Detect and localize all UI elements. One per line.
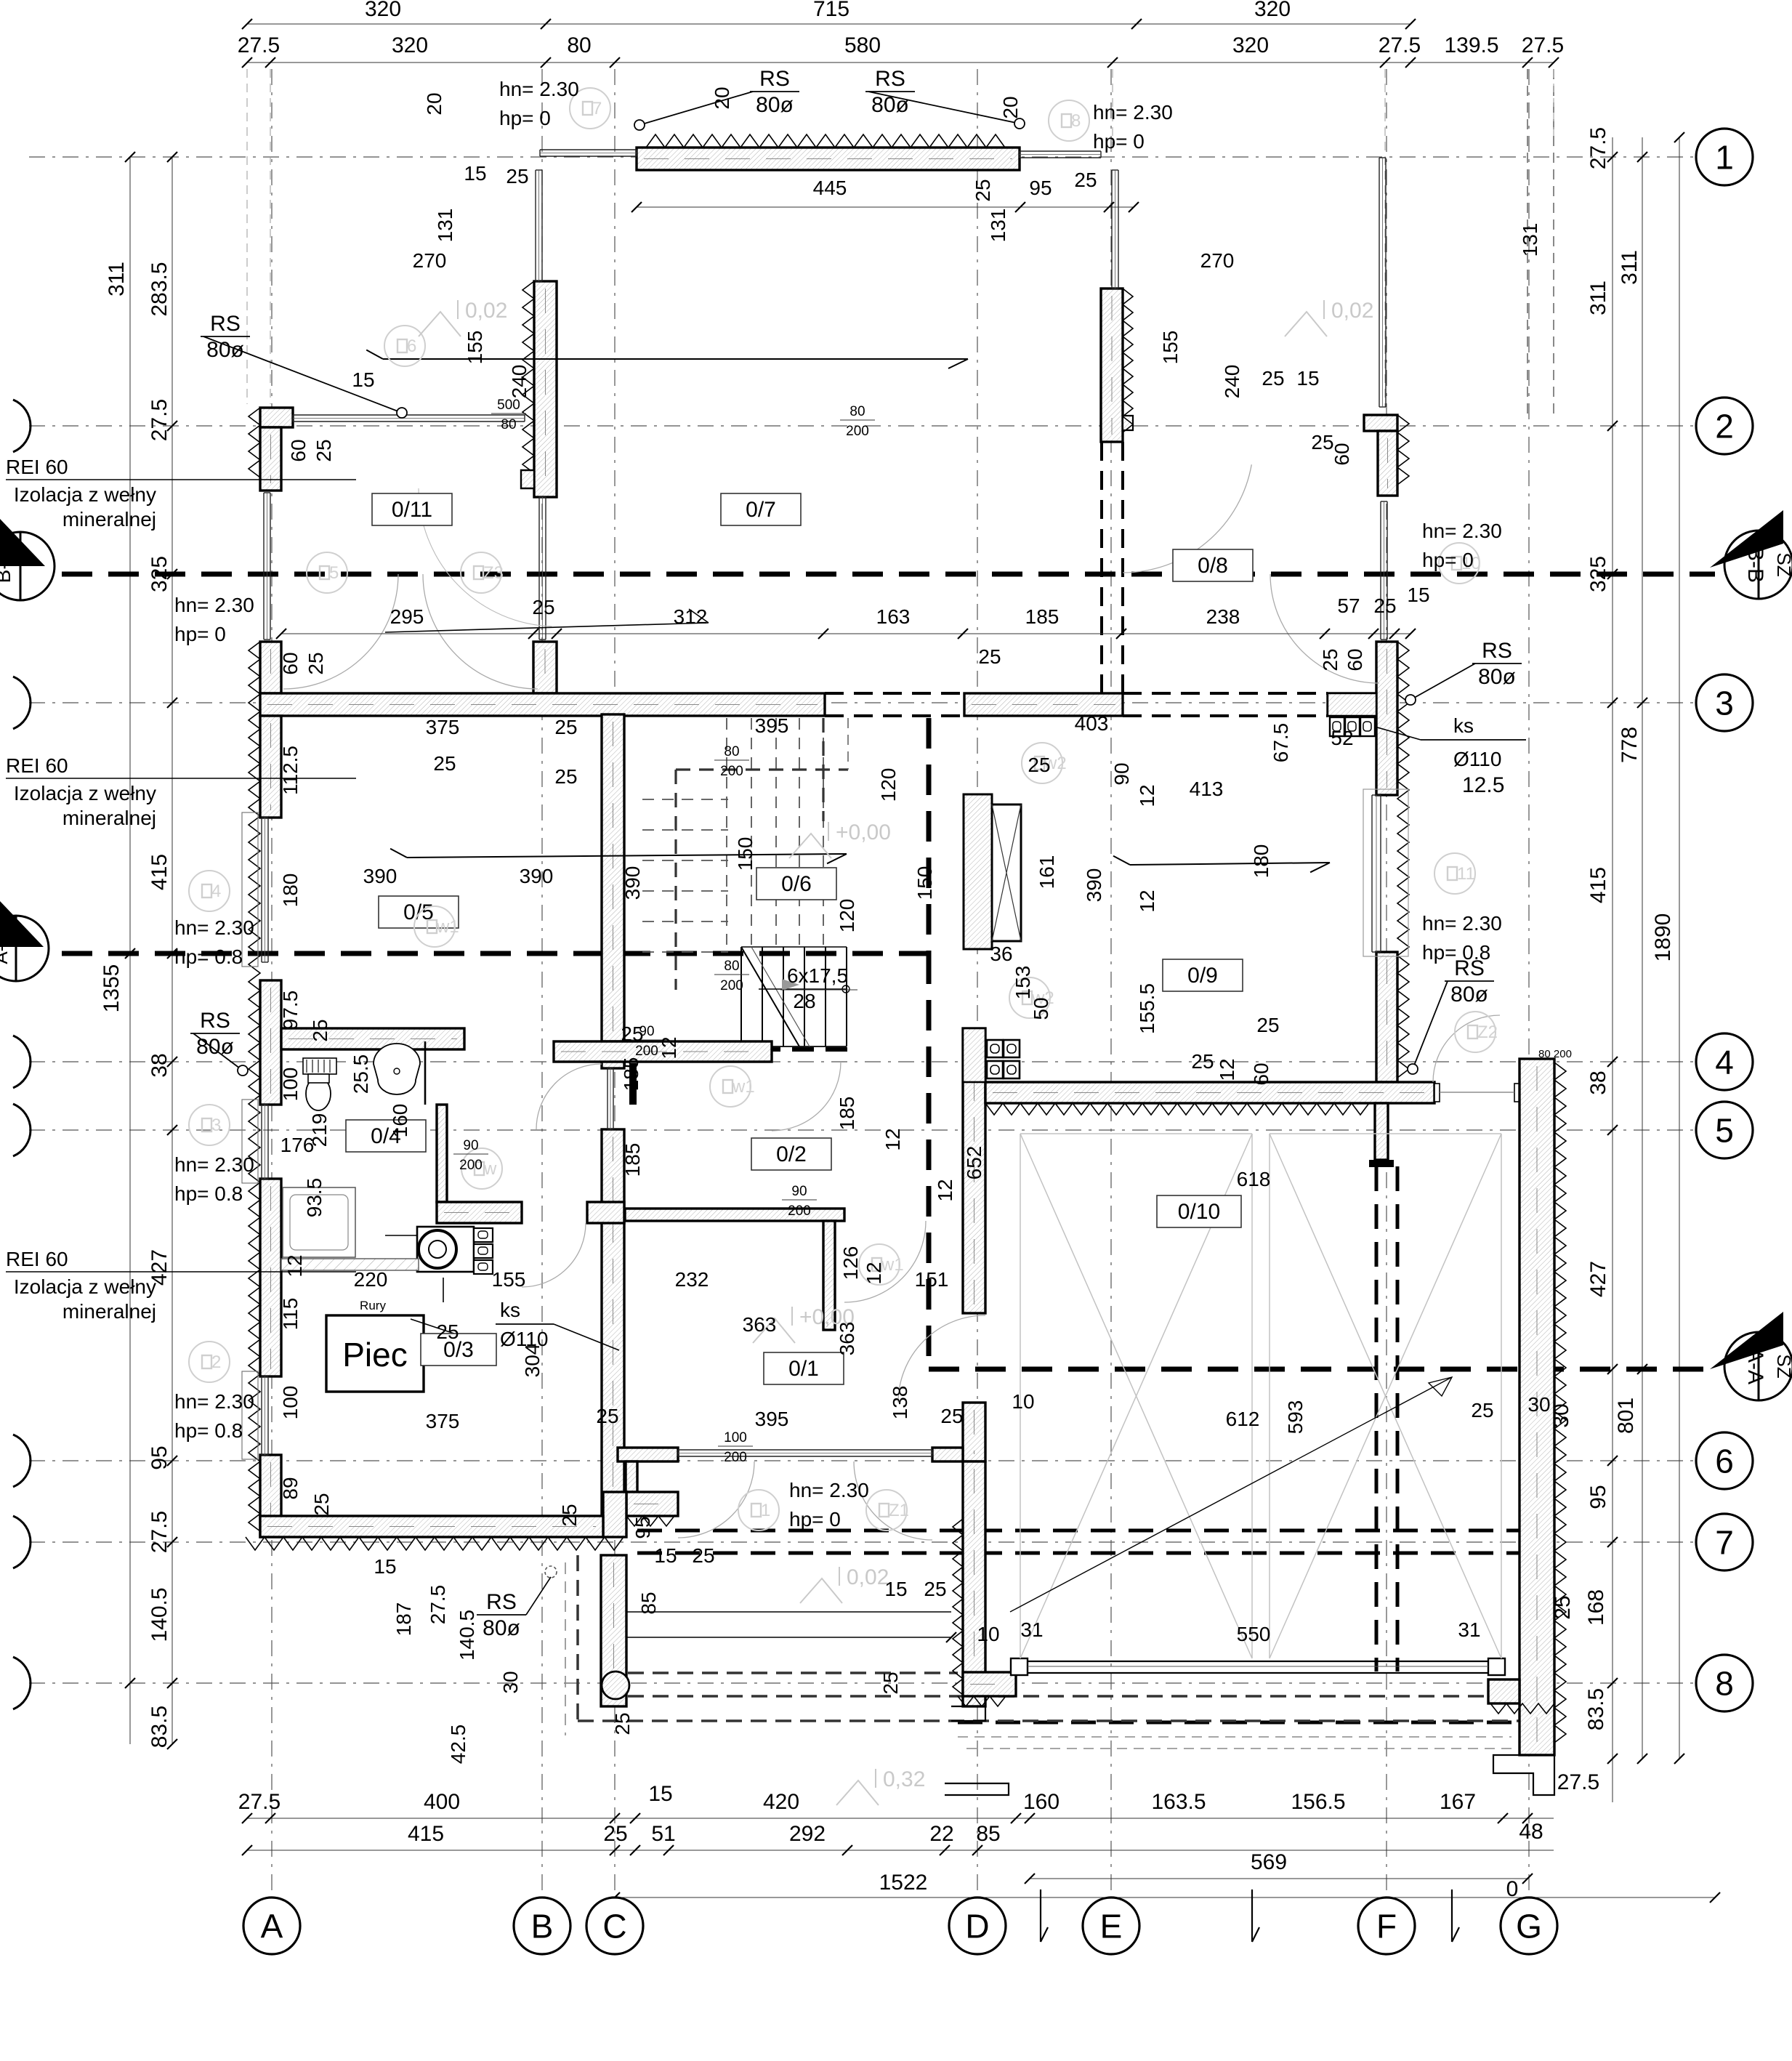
svg-text:15: 15	[884, 1578, 907, 1600]
svg-text:2: 2	[211, 1352, 221, 1372]
svg-text:311: 311	[1586, 281, 1610, 315]
svg-text:95: 95	[1029, 177, 1052, 199]
svg-text:25.5: 25.5	[350, 1054, 372, 1094]
svg-text:hn= 2.30: hn= 2.30	[174, 1153, 254, 1176]
svg-text:SZ: SZ	[1773, 1354, 1792, 1378]
svg-text:25: 25	[1471, 1399, 1493, 1421]
svg-text:150: 150	[734, 837, 756, 871]
svg-text:REI 60: REI 60	[6, 1248, 68, 1270]
svg-text:0/9: 0/9	[1187, 964, 1218, 988]
svg-text:mineralnej: mineralnej	[62, 1300, 156, 1323]
svg-text:403: 403	[1075, 712, 1109, 735]
svg-text:F: F	[1376, 1908, 1397, 1945]
svg-text:60: 60	[279, 652, 302, 674]
svg-text:1890: 1890	[1651, 913, 1675, 962]
svg-text:12: 12	[283, 1254, 306, 1277]
svg-text:445: 445	[813, 177, 847, 199]
svg-text:93.5: 93.5	[303, 1178, 326, 1218]
svg-text:Izolacja z wełny: Izolacja z wełny	[14, 483, 156, 506]
svg-text:618: 618	[1237, 1168, 1271, 1190]
svg-text:185: 185	[620, 1057, 642, 1092]
svg-text:320: 320	[1232, 33, 1269, 57]
svg-text:83.5: 83.5	[1584, 1688, 1608, 1730]
svg-text:SZ: SZ	[1773, 552, 1792, 576]
svg-text:25: 25	[554, 765, 577, 788]
svg-text:25: 25	[554, 716, 577, 738]
svg-text:25: 25	[611, 1712, 634, 1735]
svg-text:25: 25	[309, 1019, 331, 1041]
svg-text:0/11: 0/11	[392, 498, 432, 522]
svg-text:25: 25	[1191, 1050, 1214, 1073]
svg-text:25: 25	[879, 1671, 902, 1694]
svg-text:185: 185	[621, 1143, 644, 1177]
svg-text:RS: RS	[210, 312, 241, 336]
svg-text:80: 80	[724, 744, 739, 759]
svg-text:Izolacja z wełny: Izolacja z wełny	[14, 782, 156, 804]
svg-text:1: 1	[1715, 139, 1734, 177]
svg-text:85: 85	[637, 1592, 660, 1614]
svg-text:8: 8	[1715, 1665, 1734, 1703]
svg-text:200: 200	[635, 1044, 658, 1059]
svg-text:161: 161	[1036, 855, 1058, 890]
svg-text:0/10: 0/10	[1178, 1200, 1220, 1224]
svg-text:115: 115	[279, 1298, 302, 1331]
svg-text:80: 80	[501, 417, 516, 432]
svg-text:25: 25	[558, 1504, 581, 1526]
svg-text:28: 28	[793, 990, 815, 1012]
svg-text:15: 15	[464, 162, 486, 185]
svg-text:140.5: 140.5	[456, 1610, 478, 1661]
svg-text:801: 801	[1614, 1397, 1638, 1434]
svg-text:7: 7	[1715, 1524, 1734, 1562]
svg-text:REI 60: REI 60	[6, 456, 68, 478]
svg-text:hp= 0: hp= 0	[174, 623, 226, 645]
svg-text:27.5: 27.5	[1379, 33, 1421, 57]
svg-text:67.5: 67.5	[1270, 723, 1292, 763]
svg-text:hp= 0: hp= 0	[1422, 549, 1474, 571]
svg-text:6x17,5: 6x17,5	[787, 964, 848, 987]
svg-text:w: w	[483, 1159, 497, 1179]
svg-text:15: 15	[1296, 367, 1319, 390]
svg-text:100: 100	[724, 1430, 747, 1445]
svg-text:25: 25	[924, 1578, 946, 1600]
svg-text:200: 200	[720, 764, 743, 779]
svg-text:B-B: B-B	[1743, 546, 1767, 583]
svg-text:10: 10	[977, 1623, 999, 1645]
svg-text:292: 292	[789, 1822, 826, 1846]
svg-text:31: 31	[1020, 1618, 1043, 1641]
svg-text:25: 25	[532, 596, 554, 618]
svg-text:390: 390	[363, 865, 397, 887]
svg-text:15: 15	[654, 1544, 677, 1567]
svg-text:hn= 2.30: hn= 2.30	[1093, 101, 1173, 124]
svg-text:w1: w1	[436, 917, 459, 937]
svg-text:RS: RS	[875, 67, 905, 91]
svg-text:415: 415	[1586, 867, 1610, 903]
svg-text:312: 312	[674, 605, 708, 628]
svg-text:270: 270	[413, 249, 447, 272]
svg-text:10: 10	[1012, 1390, 1034, 1413]
svg-text:20: 20	[999, 96, 1022, 118]
svg-text:27.5: 27.5	[148, 399, 171, 441]
svg-text:138: 138	[889, 1386, 911, 1420]
svg-text:83.5: 83.5	[148, 1706, 171, 1748]
svg-text:+0,00: +0,00	[836, 820, 891, 844]
svg-text:B-B: B-B	[0, 549, 15, 584]
svg-text:RS: RS	[759, 67, 790, 91]
svg-text:100: 100	[279, 1068, 302, 1102]
svg-text:25: 25	[1256, 1014, 1279, 1036]
svg-text:375: 375	[426, 716, 460, 738]
svg-text:270: 270	[1200, 249, 1235, 272]
svg-text:0,32: 0,32	[883, 1767, 925, 1791]
svg-text:0,02: 0,02	[465, 299, 507, 323]
svg-text:hn= 2.30: hn= 2.30	[789, 1479, 869, 1501]
svg-text:90: 90	[1110, 762, 1133, 785]
svg-text:12: 12	[1136, 890, 1158, 912]
svg-text:hn= 2.30: hn= 2.30	[1422, 912, 1502, 935]
svg-text:131: 131	[987, 209, 1009, 243]
svg-text:140.5: 140.5	[148, 1587, 171, 1642]
svg-text:200: 200	[724, 1450, 747, 1465]
svg-text:20: 20	[423, 92, 445, 115]
svg-text:120: 120	[836, 899, 858, 933]
svg-text:mineralnej: mineralnej	[62, 508, 156, 531]
svg-text:612: 612	[1226, 1408, 1260, 1430]
svg-text:168: 168	[1584, 1589, 1608, 1626]
svg-text:8: 8	[1071, 111, 1081, 131]
svg-text:200: 200	[788, 1203, 811, 1219]
svg-text:6: 6	[407, 336, 416, 356]
svg-text:778: 778	[1618, 727, 1642, 763]
svg-text:550: 550	[1237, 1623, 1271, 1645]
svg-text:240: 240	[1221, 365, 1243, 399]
svg-text:3: 3	[1715, 685, 1734, 722]
svg-text:151: 151	[915, 1268, 949, 1291]
svg-text:155: 155	[1159, 331, 1182, 365]
svg-text:25: 25	[692, 1544, 714, 1567]
svg-text:48: 48	[1519, 1820, 1543, 1844]
svg-text:22: 22	[929, 1822, 953, 1846]
svg-text:139.5: 139.5	[1444, 33, 1498, 57]
svg-text:25: 25	[978, 645, 1001, 668]
svg-text:593: 593	[1284, 1400, 1307, 1435]
svg-text:hp= 0.8: hp= 0.8	[174, 945, 243, 968]
svg-text:15: 15	[374, 1555, 396, 1578]
svg-text:hn= 2.30: hn= 2.30	[1422, 520, 1502, 542]
svg-text:1355: 1355	[100, 964, 124, 1013]
svg-text:G: G	[1516, 1908, 1542, 1945]
svg-text:C: C	[602, 1908, 626, 1945]
svg-text:80ø: 80ø	[756, 93, 794, 117]
svg-text:25: 25	[596, 1405, 618, 1427]
svg-text:20: 20	[711, 86, 733, 109]
svg-text:155: 155	[492, 1268, 526, 1291]
svg-text:hn= 2.30: hn= 2.30	[174, 916, 254, 939]
svg-text:320: 320	[365, 0, 401, 21]
svg-text:51: 51	[651, 1822, 675, 1846]
svg-text:A: A	[261, 1908, 283, 1945]
svg-text:5: 5	[1715, 1112, 1734, 1150]
svg-text:3: 3	[211, 1116, 221, 1135]
svg-text:25: 25	[603, 1822, 627, 1846]
svg-text:295: 295	[390, 605, 424, 628]
svg-text:RS: RS	[486, 1590, 517, 1614]
svg-text:97.5: 97.5	[279, 991, 302, 1030]
svg-text:12.5: 12.5	[1462, 773, 1504, 797]
svg-text:415: 415	[148, 854, 171, 890]
svg-text:Izolacja z wełny: Izolacja z wełny	[14, 1275, 156, 1298]
svg-text:80ø: 80ø	[1478, 665, 1516, 689]
svg-text:240: 240	[508, 365, 530, 399]
svg-text:ks: ks	[1453, 714, 1474, 737]
svg-text:160: 160	[389, 1104, 411, 1138]
svg-text:RS: RS	[200, 1009, 230, 1033]
svg-text:Rury: Rury	[360, 1299, 386, 1312]
svg-text:27.5: 27.5	[1586, 127, 1610, 169]
svg-text:12: 12	[881, 1128, 904, 1150]
svg-text:0/8: 0/8	[1198, 554, 1228, 578]
svg-text:12: 12	[863, 1262, 885, 1284]
svg-text:12: 12	[1216, 1058, 1238, 1081]
svg-text:12: 12	[658, 1036, 680, 1059]
svg-text:25: 25	[304, 652, 327, 674]
svg-text:27.5: 27.5	[238, 1790, 280, 1814]
svg-text:100: 100	[279, 1386, 302, 1420]
svg-text:RS: RS	[1482, 639, 1512, 663]
svg-text:Ø110: Ø110	[1453, 748, 1501, 770]
svg-text:52: 52	[1331, 727, 1353, 749]
svg-text:30: 30	[499, 1671, 522, 1693]
svg-text:715: 715	[813, 0, 849, 21]
svg-text:60: 60	[287, 439, 310, 461]
svg-text:25: 25	[972, 179, 994, 201]
svg-text:11: 11	[1457, 864, 1475, 884]
svg-text:163: 163	[876, 605, 911, 628]
svg-text:90: 90	[791, 1184, 807, 1199]
svg-text:150: 150	[913, 866, 936, 900]
svg-text:A-A: A-A	[1743, 1348, 1767, 1384]
svg-text:156.5: 156.5	[1291, 1790, 1345, 1814]
svg-text:hp= 0: hp= 0	[499, 107, 551, 129]
svg-text:0,02: 0,02	[1331, 299, 1373, 323]
svg-text:15: 15	[1407, 584, 1429, 606]
svg-text:120: 120	[877, 768, 900, 802]
svg-text:25: 25	[310, 1493, 333, 1515]
svg-text:185: 185	[1025, 605, 1060, 628]
svg-text:D: D	[965, 1908, 989, 1945]
svg-text:0/2: 0/2	[776, 1142, 807, 1166]
svg-text:4: 4	[1715, 1044, 1734, 1081]
svg-text:2: 2	[1715, 408, 1734, 445]
svg-text:0: 0	[1506, 1877, 1519, 1901]
svg-text:mineralnej: mineralnej	[62, 807, 156, 829]
svg-text:112.5: 112.5	[279, 746, 302, 795]
svg-text:E: E	[1100, 1908, 1123, 1945]
svg-text:80: 80	[849, 404, 865, 419]
svg-text:176: 176	[280, 1134, 315, 1156]
svg-text:7: 7	[592, 99, 602, 118]
svg-text:Piec: Piec	[342, 1336, 407, 1374]
svg-text:36: 36	[990, 943, 1012, 965]
svg-text:25: 25	[1074, 169, 1097, 191]
svg-text:25: 25	[1373, 594, 1396, 617]
svg-text:25: 25	[433, 752, 456, 775]
svg-text:200: 200	[846, 424, 869, 439]
svg-text:500: 500	[497, 398, 520, 413]
svg-text:30: 30	[1527, 1393, 1550, 1416]
svg-text:12: 12	[1136, 784, 1158, 807]
svg-text:0/7: 0/7	[746, 498, 776, 522]
svg-text:95: 95	[631, 1516, 654, 1538]
svg-text:95: 95	[148, 1445, 171, 1469]
svg-text:95: 95	[1586, 1485, 1610, 1509]
svg-text:0,02: 0,02	[847, 1565, 889, 1589]
svg-text:hp= 0.8: hp= 0.8	[174, 1182, 243, 1205]
svg-text:A-A: A-A	[0, 932, 12, 964]
svg-text:27.5: 27.5	[148, 1511, 171, 1553]
svg-text:89: 89	[279, 1477, 302, 1499]
svg-text:hp= 0.8: hp= 0.8	[174, 1419, 243, 1442]
svg-text:ks: ks	[500, 1299, 520, 1321]
svg-text:hn= 2.30: hn= 2.30	[499, 78, 579, 100]
svg-text:90: 90	[463, 1138, 478, 1153]
svg-text:180: 180	[1250, 844, 1272, 879]
svg-text:80ø: 80ø	[483, 1616, 520, 1640]
svg-text:200: 200	[459, 1158, 483, 1173]
svg-text:27.5: 27.5	[427, 1585, 449, 1625]
svg-text:153: 153	[1012, 966, 1034, 1000]
svg-text:155: 155	[464, 331, 486, 365]
svg-text:25: 25	[506, 165, 528, 187]
svg-text:580: 580	[844, 33, 881, 57]
svg-text:85: 85	[976, 1822, 1000, 1846]
svg-text:390: 390	[520, 865, 554, 887]
svg-text:363: 363	[836, 1322, 858, 1356]
svg-text:25: 25	[1028, 754, 1050, 776]
svg-text:Z2: Z2	[1477, 1023, 1498, 1042]
svg-text:25: 25	[940, 1405, 963, 1427]
svg-text:167: 167	[1440, 1790, 1476, 1814]
svg-text:131: 131	[434, 209, 456, 243]
svg-text:80ø: 80ø	[1450, 983, 1488, 1007]
svg-text:163.5: 163.5	[1151, 1790, 1206, 1814]
svg-text:180: 180	[279, 874, 302, 908]
svg-text:160: 160	[1023, 1790, 1060, 1814]
svg-text:B: B	[531, 1908, 554, 1945]
svg-text:131: 131	[1519, 223, 1541, 257]
svg-text:187: 187	[392, 1602, 415, 1637]
svg-text:400: 400	[424, 1790, 460, 1814]
svg-text:25: 25	[621, 1023, 643, 1045]
svg-text:427: 427	[1586, 1261, 1610, 1297]
svg-text:80: 80	[724, 959, 739, 974]
svg-text:395: 395	[755, 1408, 789, 1430]
svg-text:0/1: 0/1	[788, 1357, 819, 1381]
svg-text:304: 304	[521, 1344, 544, 1378]
svg-text:50: 50	[1030, 997, 1052, 1020]
svg-text:27.5: 27.5	[1522, 33, 1564, 57]
svg-text:415: 415	[408, 1822, 444, 1846]
svg-text:hn= 2.30: hn= 2.30	[174, 1390, 254, 1413]
svg-text:320: 320	[1254, 0, 1291, 21]
svg-text:390: 390	[1083, 868, 1105, 903]
svg-text:413: 413	[1190, 778, 1224, 800]
svg-text:38: 38	[148, 1053, 171, 1077]
svg-text:390: 390	[621, 866, 644, 900]
svg-text:6: 6	[1715, 1443, 1734, 1480]
svg-text:hp= 0: hp= 0	[1093, 130, 1145, 153]
svg-text:283.5: 283.5	[148, 262, 171, 316]
svg-text:232: 232	[675, 1268, 709, 1291]
svg-text:Z1: Z1	[889, 1501, 909, 1520]
svg-text:652: 652	[963, 1146, 985, 1180]
svg-text:60: 60	[1331, 443, 1353, 465]
svg-text:w1: w1	[732, 1077, 755, 1097]
svg-text:238: 238	[1206, 605, 1240, 628]
svg-text:311: 311	[105, 262, 129, 297]
svg-text:25: 25	[1319, 648, 1341, 671]
svg-text:hn= 2.30: hn= 2.30	[174, 594, 254, 616]
svg-text:60: 60	[1344, 648, 1366, 671]
svg-text:363: 363	[743, 1313, 777, 1336]
svg-text:320: 320	[392, 33, 428, 57]
svg-text:27.5: 27.5	[1557, 1770, 1599, 1794]
svg-text:375: 375	[426, 1410, 460, 1432]
svg-text:80: 80	[567, 33, 591, 57]
svg-text:5: 5	[329, 563, 339, 583]
svg-text:1522: 1522	[879, 1871, 928, 1895]
svg-text:25: 25	[1262, 367, 1284, 390]
svg-text:311: 311	[1618, 250, 1642, 285]
svg-text:12: 12	[934, 1179, 956, 1201]
svg-text:25: 25	[1311, 431, 1333, 453]
svg-text:25: 25	[312, 439, 335, 461]
svg-text:420: 420	[763, 1790, 799, 1814]
svg-text:42.5: 42.5	[447, 1725, 469, 1764]
svg-text:RS: RS	[1454, 956, 1485, 980]
svg-text:25: 25	[436, 1320, 459, 1343]
svg-text:REI 60: REI 60	[6, 754, 68, 777]
svg-text:15: 15	[352, 368, 374, 391]
svg-text:395: 395	[755, 714, 789, 737]
svg-text:hp= 0: hp= 0	[789, 1508, 841, 1530]
svg-text:80 200: 80 200	[1538, 1048, 1572, 1060]
svg-text:0/6: 0/6	[781, 872, 812, 896]
svg-text:1: 1	[761, 1501, 770, 1520]
svg-text:27.5: 27.5	[238, 33, 280, 57]
svg-text:569: 569	[1251, 1850, 1287, 1874]
svg-text:80ø: 80ø	[196, 1035, 234, 1059]
svg-text:200: 200	[720, 978, 743, 993]
svg-text:31: 31	[1458, 1618, 1480, 1641]
svg-text:Z3: Z3	[483, 563, 504, 583]
svg-text:185: 185	[836, 1097, 858, 1131]
svg-text:126: 126	[839, 1246, 862, 1280]
svg-text:38: 38	[1586, 1070, 1610, 1094]
svg-text:220: 220	[354, 1268, 388, 1291]
svg-text:60: 60	[1250, 1062, 1272, 1085]
svg-text:4: 4	[211, 882, 221, 901]
svg-text:155.5: 155.5	[1136, 983, 1158, 1034]
svg-text:57: 57	[1337, 594, 1360, 617]
svg-text:15: 15	[648, 1782, 672, 1806]
